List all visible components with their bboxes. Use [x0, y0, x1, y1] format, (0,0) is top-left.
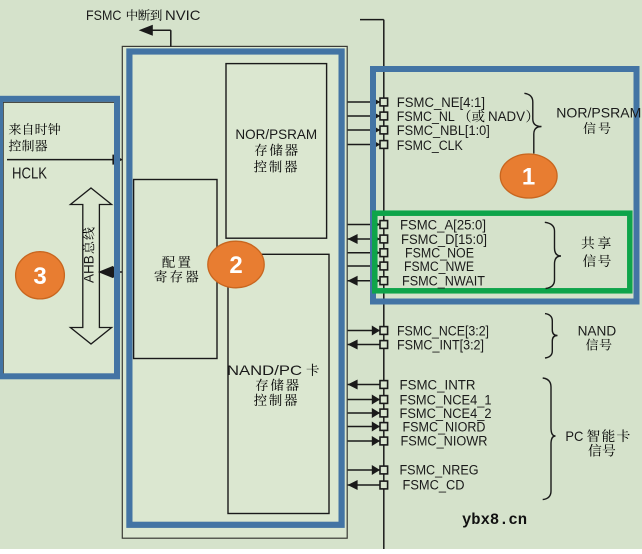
pin square FSMC_NCE4_1 [380, 396, 388, 404]
pin square FSMC_NCE4_2 [380, 409, 388, 417]
NAND/PC-card memory controller box [228, 254, 329, 513]
wire FSMC_D[15:0] [348, 238, 384, 240]
svg-text:FSMC_NBL[1:0]: FSMC_NBL[1:0] [397, 123, 490, 138]
AHB bus hollow double arrow [70, 188, 111, 344]
label AHB bus (rotated) [82, 255, 97, 283]
NOR/PSRAM signals blue highlight box (1) [373, 69, 637, 302]
wire FSMC_NREG [348, 469, 384, 471]
pin square FSMC_NOE [380, 249, 388, 257]
wire FSMC interrupt to NVIC [170, 30, 172, 46]
wire FSMC_NWAIT [348, 280, 384, 282]
wire FSMC_CD [348, 484, 384, 486]
svg-text:HCLK: HCLK [12, 166, 47, 183]
svg-text:FSMC_INT[3:2]: FSMC_INT[3:2] [397, 338, 484, 353]
wire FSMC_CLK [348, 144, 384, 146]
svg-text:FSMC_CLK: FSMC_CLK [397, 138, 463, 153]
pin square FSMC_NIOWR [380, 437, 388, 445]
svg-text:FSMC_NE[4:1]: FSMC_NE[4:1] [397, 95, 485, 110]
wire FSMC_NCE4_2 [348, 412, 384, 414]
wire FSMC_NCE4_1 [348, 399, 384, 401]
wire FSMC_NE[4:1] [348, 101, 384, 103]
svg-text:FSMC_CD: FSMC_CD [403, 478, 465, 493]
wire HCLK from clock box into FSMC [7, 159, 122, 161]
FSMC block outer black frame + fill [122, 46, 347, 538]
clock box inner black frame [3, 102, 116, 377]
pin square FSMC_INTR [380, 381, 388, 389]
pin square FSMC_NE[4:1] [380, 98, 388, 106]
svg-text:FSMC_A[25:0]: FSMC_A[25:0] [400, 218, 486, 233]
wire FSMC_NL [348, 115, 384, 117]
pin square FSMC_NL [380, 112, 388, 120]
pin square FSMC_NWE [380, 262, 388, 270]
svg-text:AHB: AHB [82, 255, 97, 283]
trunk top hook wire [360, 19, 384, 21]
clock source box (annotation 3 region) fill [0, 96, 120, 380]
svg-text:NOR/PSRAM: NOR/PSRAM [235, 126, 317, 142]
wire FSMC_NWE [348, 265, 384, 267]
FSMC box blue highlight border [129, 52, 341, 525]
svg-text:FSMC_NREG: FSMC_NREG [400, 463, 479, 478]
svg-text:NAND: NAND [578, 324, 617, 339]
brace shared signal group [545, 222, 561, 288]
clock box blue highlight border [0, 99, 117, 377]
svg-text:FSMC_NL: FSMC_NL [397, 109, 455, 124]
wire FSMC_NOE [348, 252, 384, 254]
svg-text:FSMC_INTR: FSMC_INTR [400, 378, 476, 393]
group label shared signals [582, 237, 595, 250]
svg-text:NOR/PSRAM: NOR/PSRAM [556, 106, 641, 121]
config registers label [162, 256, 175, 268]
svg-text:FSMC_NIORD: FSMC_NIORD [403, 420, 486, 435]
pin square FSMC_A[25:0] [380, 221, 388, 229]
svg-text:1: 1 [522, 164, 535, 191]
wire FSMC_NIOWR [348, 440, 384, 442]
svg-text:FSMC_NIOWR: FSMC_NIOWR [401, 434, 488, 449]
wire AHB to FSMC with left arrow [112, 271, 122, 273]
brace NAND signal group [545, 314, 558, 358]
pin square FSMC_NCE[3:2] [380, 327, 388, 335]
svg-text:NAND/PC: NAND/PC [227, 362, 302, 378]
svg-text:PC: PC [565, 429, 583, 444]
wire FSMC_NIORD [348, 426, 384, 428]
pin square FSMC_CD [380, 481, 388, 489]
wire FSMC_INT[3:2] [348, 344, 384, 346]
svg-text:ybx8.cn: ybx8.cn [462, 511, 527, 529]
wire FSMC_A[25:0] [348, 224, 384, 226]
svg-text:NADV: NADV [488, 109, 525, 124]
svg-text:FSMC_NWAIT: FSMC_NWAIT [402, 274, 485, 289]
wire FSMC_NCE[3:2] [348, 330, 384, 332]
clock box label [9, 123, 21, 135]
pin square FSMC_CLK [380, 141, 388, 149]
pin square FSMC_INT[3:2] [380, 341, 388, 349]
svg-text:FSMC: FSMC [86, 8, 122, 23]
svg-text:NVIC: NVIC [165, 8, 201, 23]
pin square FSMC_NREG [380, 466, 388, 474]
FSMC external signal trunk line [383, 20, 385, 549]
annotation circle 1 [500, 154, 557, 198]
svg-text:FSMC_NWE: FSMC_NWE [404, 259, 474, 274]
wire FSMC_INTR [348, 384, 384, 386]
pin square FSMC_NIORD [380, 423, 388, 431]
pin square FSMC_NWAIT [380, 277, 388, 285]
svg-text:3: 3 [33, 263, 46, 290]
svg-text:2: 2 [229, 252, 242, 279]
svg-text:FSMC_NCE[3:2]: FSMC_NCE[3:2] [397, 324, 489, 339]
annotation circle 3 [16, 252, 65, 299]
shared signals green highlight box [375, 213, 630, 291]
NOR/PSRAM memory controller box [226, 64, 327, 239]
annotation circle 2 [208, 241, 264, 288]
brace NOR/PSRAM signal group [524, 93, 541, 153]
pin square FSMC_D[15:0] [380, 235, 388, 243]
brace PC card signal group [543, 378, 556, 500]
configuration registers box [134, 180, 217, 359]
pin square FSMC_NBL[1:0] [380, 126, 388, 134]
wire FSMC_NBL[1:0] [348, 129, 384, 131]
